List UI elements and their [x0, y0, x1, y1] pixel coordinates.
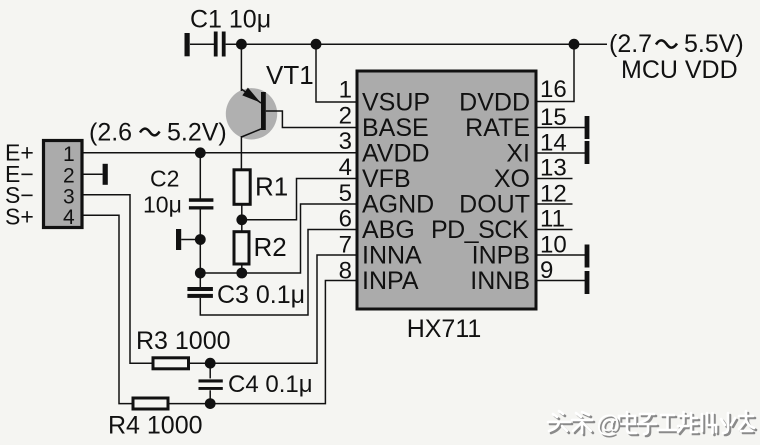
resistor R3 [153, 358, 189, 369]
terminal bar pin 15 [585, 116, 590, 139]
svg-text:PD_SCK: PD_SCK [431, 216, 529, 244]
node R2 bottom junction [236, 268, 247, 279]
svg-text:@: @ [596, 411, 620, 438]
node AVDD / C2 junction [195, 147, 206, 158]
capacitor C3 [187, 287, 213, 298]
capacitor C2 [189, 198, 214, 209]
svg-text:INNA: INNA [362, 242, 422, 270]
wire DVDD pin 16 [536, 44, 574, 101]
svg-text:R1: R1 [255, 172, 288, 202]
svg-text:C3 0.1μ: C3 0.1μ [217, 281, 305, 309]
node AGND rail left junction [195, 268, 206, 279]
wire E- to terminal bar [83, 173, 103, 175]
svg-text:S+: S+ [5, 204, 34, 230]
wire C2 bottom to C3 top [199, 209, 201, 287]
svg-text:C2: C2 [150, 166, 179, 192]
svg-text:11: 11 [540, 206, 565, 233]
svg-text:C1 10μ: C1 10μ [190, 6, 271, 34]
node DVDD branch junction [569, 39, 580, 50]
label (2.6 ~ 5.2V) [89, 119, 227, 147]
svg-text:13: 13 [540, 155, 567, 182]
wire pin 11 PD_SCK stub [536, 229, 573, 231]
wire pin 12 DOUT stub [536, 203, 573, 205]
wire common bar to node [181, 239, 200, 241]
integrated circuit U1 HX711 [357, 71, 536, 309]
svg-text:6: 6 [339, 206, 352, 233]
wire top supply rail [226, 43, 607, 45]
resistor R2 [234, 232, 249, 264]
node R3 / C4 junction [205, 358, 216, 369]
wire S- to R3 to INNA pin 7 [83, 195, 357, 364]
terminal bar common [176, 229, 181, 250]
wire S+ to R4 to INPA pin 8 [83, 215, 357, 403]
svg-text:10μ: 10μ [143, 192, 182, 218]
svg-text:R2: R2 [254, 232, 287, 262]
wire R1 bottom to R2 top [241, 204, 243, 232]
resistor R4 [133, 398, 168, 409]
svg-text:5.5V): 5.5V) [684, 30, 744, 58]
svg-text:R3 1000: R3 1000 [136, 327, 231, 355]
svg-text:2: 2 [339, 103, 352, 130]
node C1 / VT1 collector junction [236, 39, 247, 50]
svg-text:RATE: RATE [465, 114, 530, 142]
svg-text:HX711: HX711 [407, 315, 482, 343]
svg-text:8: 8 [339, 258, 352, 285]
wire VFB pin 4 [242, 179, 357, 220]
connector J1 [44, 141, 83, 228]
node C4 bottom junction [205, 398, 216, 409]
svg-text:INNB: INNB [470, 267, 530, 295]
node bar junction [195, 234, 206, 245]
terminal bar pin 14 [585, 141, 590, 164]
svg-text:C4 0.1μ: C4 0.1μ [228, 371, 313, 398]
svg-text:VFB: VFB [362, 165, 411, 193]
svg-text:2: 2 [63, 165, 75, 188]
wire pin 10 INPB to bar [536, 254, 585, 256]
svg-text:MCU VDD: MCU VDD [621, 56, 738, 84]
svg-text:5.2V): 5.2V) [167, 119, 227, 147]
capacitor C1 [185, 32, 226, 57]
svg-text:VSUP: VSUP [362, 89, 430, 117]
wire R1 emitter feed is above; resistor R1 [234, 170, 250, 205]
svg-text:16: 16 [540, 76, 567, 103]
terminal bar pin 9 [585, 271, 590, 294]
wire pin 14 XI to bar [536, 152, 585, 154]
svg-text:DVDD: DVDD [459, 89, 530, 117]
svg-text:AGND: AGND [362, 191, 434, 219]
wire VT1 base to pin 2 BASE [266, 111, 357, 128]
svg-text:INPA: INPA [362, 267, 419, 295]
wire C2 branch top [199, 153, 201, 199]
svg-text:R4 1000: R4 1000 [108, 412, 203, 440]
svg-text:ABG: ABG [362, 216, 415, 244]
wire C3 bottom to ABG pin 6 [200, 230, 357, 316]
node VSUP branch junction [311, 39, 322, 50]
svg-text:5: 5 [339, 180, 352, 207]
svg-text:BASE: BASE [362, 114, 429, 142]
terminal bar E- [103, 164, 108, 185]
svg-text:XI: XI [506, 140, 530, 168]
wire R2 bottom [241, 264, 243, 273]
svg-text:(2.6: (2.6 [89, 119, 132, 147]
wire AVDD rail [83, 152, 357, 154]
capacitor C4 [199, 363, 223, 403]
label supply voltage (2.7 ~ 5.5V) [609, 30, 744, 58]
svg-text:7: 7 [339, 232, 352, 259]
svg-text:DOUT: DOUT [459, 191, 530, 219]
svg-text:AVDD: AVDD [362, 140, 430, 168]
svg-text:4: 4 [63, 206, 75, 229]
svg-text:3: 3 [339, 128, 352, 155]
svg-text:INPB: INPB [472, 242, 530, 270]
svg-text:VT1: VT1 [266, 60, 314, 90]
svg-text:XO: XO [494, 165, 530, 193]
svg-text:1: 1 [63, 143, 75, 166]
terminal bar pin 10 [585, 245, 590, 268]
wire VSUP pin 1 [316, 44, 357, 102]
svg-text:(2.7: (2.7 [609, 30, 652, 58]
wire pin 13 XO stub [536, 178, 573, 180]
wire pin 9 INNB to bar [536, 280, 585, 282]
svg-text:1: 1 [339, 77, 352, 104]
watermark 头条 @电子工程师小李 [548, 411, 756, 440]
node R1/R2 junction [236, 214, 247, 225]
svg-text:4: 4 [339, 154, 352, 181]
wire pin 15 RATE to bar [536, 127, 585, 129]
wire AGND rail to pin 5 [200, 204, 357, 273]
transistor VT1 [226, 44, 277, 170]
